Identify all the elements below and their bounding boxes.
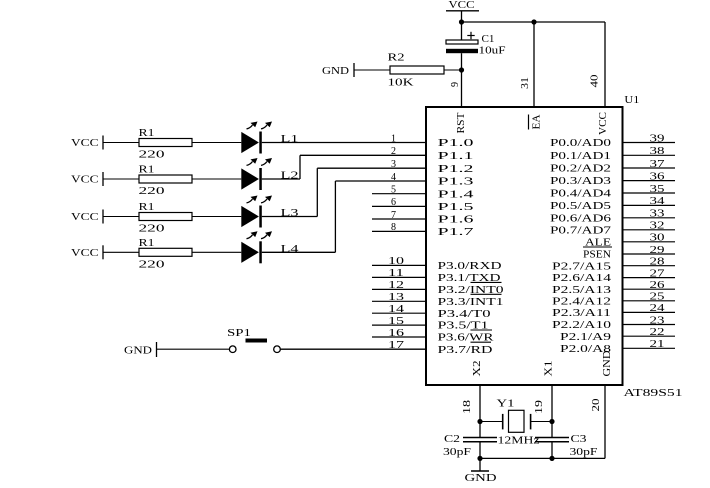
svg-text:Y1: Y1	[497, 398, 515, 410]
resistor R1 220 (row L1)	[139, 127, 193, 161]
svg-text:P1.4: P1.4	[438, 188, 475, 200]
pin 8	[372, 222, 426, 233]
svg-text:AT89S51: AT89S51	[624, 387, 683, 399]
svg-text:P2.3/A11: P2.3/A11	[552, 307, 611, 319]
wire R1 to LED L4	[192, 251, 241, 253]
svg-text:GND: GND	[124, 345, 152, 357]
svg-text:14: 14	[388, 304, 404, 315]
svg-text:10uF: 10uF	[479, 45, 506, 57]
op-amp U1 AT89S51 chip body	[426, 107, 623, 385]
wire VCC to R1 (row L2)	[103, 178, 139, 180]
svg-text:18: 18	[462, 400, 473, 414]
svg-text:19: 19	[534, 400, 545, 414]
svg-text:P2.1/A9: P2.1/A9	[560, 331, 612, 343]
wire GND pin 20	[604, 385, 606, 458]
pin label P3.0/RXD	[438, 260, 502, 272]
svg-text:32: 32	[650, 221, 665, 232]
svg-text:31: 31	[520, 77, 531, 89]
power VCC (row L2)	[71, 172, 103, 186]
svg-text:30pF: 30pF	[443, 446, 471, 458]
svg-text:P3.7/RD: P3.7/RD	[438, 344, 493, 356]
svg-text:P0.4/AD4: P0.4/AD4	[550, 188, 612, 200]
pin 21	[623, 339, 676, 350]
pin label P3.5/T1	[438, 320, 489, 332]
svg-text:C3: C3	[571, 433, 588, 445]
svg-text:P3.4/T0: P3.4/T0	[438, 308, 492, 320]
wire GND to SP1	[157, 348, 229, 350]
resistor R2 10K	[388, 52, 445, 89]
svg-text:P0.7/AD7: P0.7/AD7	[550, 224, 612, 236]
svg-text:P0.3/AD3: P0.3/AD3	[550, 175, 612, 187]
wire GND to R2	[354, 69, 390, 71]
svg-text:3: 3	[391, 159, 396, 170]
svg-text:EA: EA	[532, 114, 543, 129]
pin 23	[623, 315, 676, 326]
svg-text:24: 24	[650, 303, 665, 314]
svg-text:X1: X1	[544, 361, 555, 377]
pin 3	[391, 159, 396, 170]
pin 10	[372, 256, 426, 267]
pin 7	[372, 210, 426, 221]
capacitor C1 10uF	[446, 22, 506, 107]
svg-text:C1: C1	[482, 33, 495, 45]
wire L2 to pin 2	[262, 155, 426, 179]
pin label P2.7/A15	[552, 260, 612, 272]
svg-text:2: 2	[391, 146, 396, 157]
svg-text:34: 34	[650, 196, 665, 207]
power VCC (row L4)	[71, 245, 103, 259]
pin 28	[623, 257, 676, 268]
wire L4 to pin 4	[262, 181, 426, 252]
svg-text:P1.5: P1.5	[438, 201, 475, 213]
LED L2	[241, 158, 298, 190]
svg-text:L1: L1	[281, 133, 299, 145]
svg-text:R1: R1	[139, 201, 155, 213]
svg-text:GND: GND	[322, 65, 349, 77]
wire SP1 to pin 17	[280, 348, 426, 350]
svg-text:1: 1	[391, 133, 396, 144]
pin 30	[623, 233, 676, 244]
node C2 bus junction	[477, 456, 482, 461]
svg-text:27: 27	[650, 268, 665, 279]
pin 36	[623, 171, 676, 182]
svg-text:R1: R1	[139, 164, 155, 176]
svg-text:R1: R1	[139, 237, 155, 249]
resistor R1 220 (row L2)	[139, 164, 193, 198]
pin 22	[623, 327, 676, 338]
svg-text:VCC: VCC	[71, 138, 99, 149]
svg-text:P1.6: P1.6	[438, 214, 475, 226]
svg-text:5: 5	[391, 185, 396, 196]
wire R1 to LED L1	[192, 142, 241, 144]
svg-text:PSEN: PSEN	[583, 249, 611, 261]
svg-text:7: 7	[391, 210, 396, 221]
ground GND (bottom)	[465, 458, 497, 484]
svg-text:29: 29	[650, 245, 665, 256]
pin 11	[372, 268, 426, 279]
svg-text:L2: L2	[281, 170, 299, 182]
svg-text:10: 10	[388, 256, 404, 267]
wire R2 to RST	[444, 69, 462, 71]
pin label P2.5/A13	[552, 284, 612, 296]
svg-text:P2.6/A14: P2.6/A14	[552, 272, 612, 284]
svg-text:P0.0/AD0: P0.0/AD0	[550, 137, 612, 149]
svg-text:23: 23	[650, 315, 665, 326]
svg-text:12MHz: 12MHz	[498, 435, 540, 447]
svg-text:R2: R2	[388, 52, 405, 64]
svg-text:P1.1: P1.1	[438, 150, 474, 162]
pin label P0.3/AD3	[550, 175, 612, 187]
wire X2 pin 18	[479, 385, 481, 458]
wire R1 to LED L3	[192, 216, 241, 218]
power VCC (row L3)	[71, 210, 103, 224]
pin 14	[372, 304, 426, 315]
node EA junction	[531, 19, 536, 24]
pin 35	[623, 184, 676, 195]
node RST junction	[459, 67, 464, 72]
svg-text:SP1: SP1	[227, 327, 251, 339]
svg-text:P2.5/A13: P2.5/A13	[552, 284, 612, 296]
pin 25	[623, 292, 676, 303]
pin 37	[623, 159, 676, 170]
svg-text:220: 220	[139, 185, 166, 197]
pin 33	[623, 209, 676, 220]
pin 39	[623, 133, 676, 144]
svg-text:VCC: VCC	[598, 112, 609, 135]
svg-text:P3.0/RXD: P3.0/RXD	[438, 260, 502, 272]
pin 5	[372, 185, 426, 196]
svg-text:P2.2/A10: P2.2/A10	[552, 319, 612, 331]
pin 17	[388, 340, 404, 351]
svg-text:37: 37	[650, 159, 665, 170]
svg-text:P2.7/A15: P2.7/A15	[552, 260, 612, 272]
pin 6	[372, 197, 426, 208]
wire L1 to pin 1 P1.0	[262, 142, 426, 144]
pin label P0.5/AD5	[550, 200, 612, 212]
svg-text:12: 12	[388, 280, 404, 291]
svg-text:22: 22	[650, 327, 665, 338]
pin 12	[372, 280, 426, 291]
pin label P0.1/AD1	[550, 150, 611, 162]
node C3 bus junction	[549, 456, 554, 461]
svg-text:P2.0/A8: P2.0/A8	[560, 343, 612, 355]
wire L3 to pin 3	[262, 168, 426, 216]
wire VCC to R1 (row L3)	[103, 216, 139, 218]
pin label P2.1/A9	[560, 331, 612, 343]
svg-text:P0.6/AD6: P0.6/AD6	[550, 212, 612, 224]
pin 26	[623, 280, 676, 291]
node VCC junction	[459, 19, 464, 24]
svg-text:40: 40	[590, 75, 601, 88]
svg-text:30: 30	[650, 233, 665, 244]
pin 38	[623, 146, 676, 157]
svg-text:P0.5/AD5: P0.5/AD5	[550, 200, 612, 212]
pin label P3.4/T0	[438, 308, 492, 320]
svg-text:33: 33	[650, 209, 665, 220]
node X2-Y1 junction	[477, 419, 482, 424]
svg-text:13: 13	[388, 292, 404, 303]
pin 1	[391, 133, 396, 144]
svg-text:P1.7: P1.7	[438, 226, 475, 238]
wire VCC pin 40	[604, 22, 606, 107]
pin label P2.2/A10	[552, 319, 612, 331]
pin label P0.7/AD7	[550, 224, 612, 236]
svg-text:38: 38	[650, 146, 665, 157]
pin 16	[372, 328, 426, 339]
svg-text:20: 20	[591, 399, 602, 412]
svg-text:VCC: VCC	[71, 175, 99, 186]
switch SP1	[227, 327, 280, 353]
svg-text:P0.1/AD1: P0.1/AD1	[550, 150, 611, 162]
pin label P2.0/A8	[560, 343, 612, 355]
wire bottom bus	[480, 457, 605, 459]
pin 27	[623, 268, 676, 279]
capacitor C3 30pF	[535, 433, 598, 458]
svg-text:39: 39	[650, 133, 665, 144]
power VCC	[446, 0, 479, 22]
pin label P0.6/AD6	[550, 212, 612, 224]
svg-text:P1.2: P1.2	[438, 163, 474, 175]
svg-text:10K: 10K	[388, 77, 414, 89]
pin label P2.4/A12	[552, 295, 611, 307]
svg-text:U1: U1	[624, 95, 639, 106]
pin label P3.3/INT1	[438, 294, 504, 308]
svg-text:26: 26	[650, 280, 665, 291]
LED L1	[241, 122, 298, 154]
svg-text:VCC: VCC	[71, 248, 99, 259]
pin 32	[623, 221, 676, 232]
svg-text:220: 220	[139, 223, 166, 235]
LED L3	[241, 196, 299, 228]
EA label	[529, 114, 543, 129]
pin label P0.4/AD4	[550, 188, 612, 200]
pin label P3.2/INT0	[438, 282, 505, 296]
pin label PSEN	[583, 247, 612, 261]
resistor R1 220 (row L3)	[139, 201, 193, 235]
svg-text:GND: GND	[465, 472, 497, 484]
svg-text:X2: X2	[472, 361, 483, 377]
svg-text:11: 11	[388, 268, 404, 279]
pin label P2.3/A11	[552, 307, 611, 319]
ground GND (SP1)	[124, 342, 157, 357]
capacitor C2 30pF	[443, 433, 497, 458]
pin 29	[623, 245, 676, 256]
svg-text:36: 36	[650, 171, 665, 182]
svg-text:28: 28	[650, 257, 665, 268]
wire R1 to LED L2	[192, 178, 241, 180]
svg-text:21: 21	[650, 339, 665, 350]
svg-text:P1.3: P1.3	[438, 176, 475, 188]
pin label P3.1/TXD	[438, 272, 501, 284]
svg-text:L4: L4	[281, 243, 300, 255]
pin 24	[623, 303, 676, 314]
svg-text:25: 25	[650, 292, 665, 303]
svg-text:R1: R1	[139, 127, 155, 139]
ground GND (R2)	[322, 63, 354, 77]
pin label P3.7/RD	[438, 342, 493, 356]
pin label P0.0/AD0	[550, 137, 612, 149]
svg-text:8: 8	[391, 222, 396, 233]
svg-text:9: 9	[450, 82, 461, 87]
svg-text:4: 4	[391, 172, 396, 183]
pin 2	[391, 146, 396, 157]
svg-text:P2.4/A12: P2.4/A12	[552, 295, 611, 307]
svg-text:VCC: VCC	[71, 212, 99, 223]
pin label P3.6/WR	[438, 330, 495, 344]
svg-text:16: 16	[388, 328, 404, 339]
pin 13	[372, 292, 426, 303]
svg-text:C2: C2	[444, 433, 460, 445]
wire EA pin 31	[533, 22, 535, 107]
wire top bus	[462, 21, 606, 23]
wire VCC to R1 (row L4)	[103, 251, 139, 253]
power VCC (row L1)	[71, 136, 103, 150]
svg-text:30pF: 30pF	[570, 446, 598, 458]
svg-text:L3: L3	[281, 207, 300, 219]
crystal Y1 12MHz	[480, 398, 552, 447]
pin label ALE	[585, 236, 611, 248]
svg-text:15: 15	[388, 316, 404, 327]
wire X1 pin 19	[551, 385, 553, 458]
svg-text:P3.3/INT1: P3.3/INT1	[438, 296, 504, 308]
LED L4	[241, 231, 299, 263]
pin label P0.2/AD2	[550, 163, 611, 175]
svg-text:220: 220	[139, 149, 166, 161]
svg-text:35: 35	[650, 184, 665, 195]
pin 34	[623, 196, 676, 207]
node X1-Y1 junction	[549, 419, 554, 424]
svg-text:220: 220	[139, 258, 166, 270]
svg-text:P1.0: P1.0	[438, 137, 475, 149]
wire VCC to R1 (row L1)	[103, 142, 139, 144]
pin 4	[391, 172, 396, 183]
svg-text:6: 6	[391, 197, 396, 208]
svg-text:RST: RST	[456, 112, 467, 134]
svg-text:P0.2/AD2: P0.2/AD2	[550, 163, 611, 175]
pin 15	[372, 316, 426, 327]
pin label P2.6/A14	[552, 272, 612, 284]
svg-text:VCC: VCC	[449, 0, 475, 11]
resistor R1 220 (row L4)	[139, 237, 193, 270]
